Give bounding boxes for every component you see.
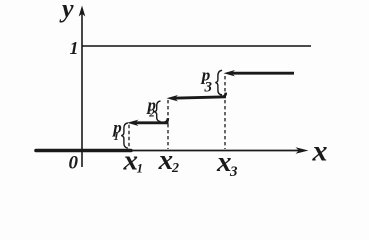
step segment level 3 with left arrow: [230, 72, 294, 75]
y=1 gridline: [82, 45, 311, 47]
svg-text:x: x: [158, 144, 174, 176]
x-axis thin part: [128, 150, 303, 152]
brace p2: [154, 101, 160, 122]
step segment level 2 with left arrow: [173, 97, 226, 98]
dashed vertical at x2: [167, 100, 169, 149]
dashed vertical at x3: [224, 76, 226, 149]
svg-text:0: 0: [69, 153, 79, 174]
svg-text:1: 1: [114, 131, 120, 143]
brace p1: [121, 123, 128, 148]
svg-text:2: 2: [171, 161, 179, 176]
x-axis arrowhead: [296, 147, 309, 154]
dashed vertical at x1: [128, 125, 130, 149]
svg-text:3: 3: [229, 164, 238, 180]
svg-text:2: 2: [148, 108, 155, 120]
step 2 right-end hook: [222, 93, 226, 97]
svg-text:y: y: [59, 0, 74, 23]
y-axis: [81, 9, 83, 167]
svg-text:1: 1: [137, 161, 144, 176]
step segment level 1 with left arrow: [133, 121, 169, 124]
svg-text:3: 3: [204, 80, 213, 96]
svg-text:1: 1: [70, 38, 79, 58]
step segment level 0 (thick on x-axis up to x1): [36, 149, 131, 153]
brace p3: [215, 70, 222, 95]
step 1 right-end hook: [164, 118, 168, 123]
y-axis arrowhead: [79, 6, 86, 17]
svg-text:x: x: [312, 135, 328, 168]
